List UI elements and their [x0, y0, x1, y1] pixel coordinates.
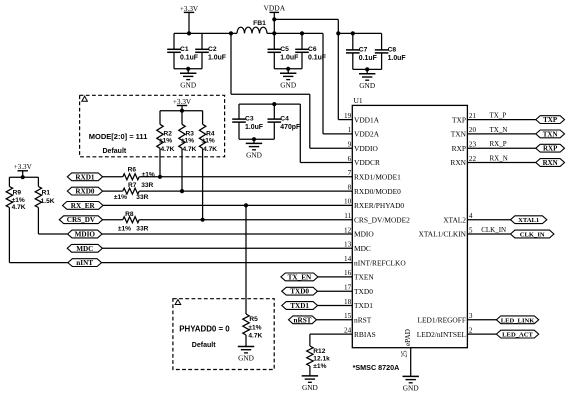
- wire TXD0 to pin 17: [318, 290, 353, 292]
- triangle revision marker on PHYADD0 box: [175, 300, 181, 305]
- svg-text:C3: C3: [245, 116, 254, 123]
- capacitor C2: [201, 33, 203, 49]
- wire nRST to pin 15: [317, 319, 353, 321]
- svg-text:23: 23: [469, 141, 477, 149]
- connector MDC: [67, 244, 102, 252]
- svg-text:TXP: TXP: [543, 116, 558, 124]
- connector nRST: [289, 316, 317, 324]
- svg-text:R6: R6: [128, 167, 137, 174]
- wire VDDIO branch to pin 9: [230, 33, 232, 94]
- wire TXP to connector: [467, 119, 535, 121]
- svg-text:±1%: ±1%: [159, 138, 172, 145]
- svg-text:RXN: RXN: [543, 159, 558, 167]
- svg-text:RXD1/MODE1: RXD1/MODE1: [354, 173, 401, 182]
- svg-text:FB1: FB1: [253, 20, 266, 27]
- svg-text:R9: R9: [13, 190, 22, 197]
- svg-text:13: 13: [344, 241, 352, 249]
- dashed annotation box MODE: [80, 95, 225, 157]
- wire R1 to MDIO line: [37, 208, 39, 235]
- node C3C4 ground junction: [252, 137, 256, 141]
- wire VDDA rail after FB1: [267, 32, 323, 34]
- node R9-R1 rail junction: [21, 175, 25, 179]
- svg-text:R5: R5: [249, 316, 258, 323]
- connector LED_ACT: [496, 330, 538, 338]
- svg-text:VDD2A: VDD2A: [354, 130, 380, 139]
- svg-text:9: 9: [348, 141, 352, 149]
- connector RXD1: [67, 173, 102, 181]
- connector TXP: [536, 116, 565, 124]
- ferrite bead FB1: [237, 27, 267, 33]
- wire VDDA stem down: [273, 12, 275, 33]
- svg-text:C4: C4: [280, 116, 289, 123]
- wire RXP to connector: [467, 147, 535, 149]
- connector RXN: [536, 159, 565, 167]
- node rail C7 junction: [351, 31, 355, 35]
- svg-text:33R: 33R: [141, 182, 153, 189]
- wire C3-C4 bottom rail: [239, 138, 274, 140]
- resistor R1: [37, 177, 39, 186]
- node +3.3V rail junction: [187, 31, 191, 35]
- svg-text:TXEN: TXEN: [354, 273, 374, 282]
- svg-text:4.7K: 4.7K: [203, 146, 217, 153]
- svg-text:Default: Default: [103, 148, 127, 155]
- svg-text:4.7K: 4.7K: [183, 146, 197, 153]
- resistor R3: [181, 111, 183, 125]
- capacitor C8: [381, 33, 383, 50]
- resistor R12: [307, 346, 313, 366]
- svg-text:*SMSC 8720A: *SMSC 8720A: [353, 363, 400, 372]
- svg-text:TX_N: TX_N: [490, 126, 508, 134]
- resistor R5: [243, 314, 249, 335]
- ground GND under C1 C2: [187, 69, 189, 73]
- capacitor C7: [352, 33, 354, 50]
- svg-text:25: 25: [400, 350, 408, 358]
- svg-text:C2: C2: [208, 46, 217, 53]
- svg-text:22: 22: [469, 155, 477, 163]
- svg-text:LED2/nINTSEL: LED2/nINTSEL: [417, 330, 467, 339]
- wire XTAL1/CLKIN to connector: [467, 233, 510, 235]
- wire ePAD to ground: [410, 348, 412, 377]
- connector LED_LINK: [496, 316, 538, 324]
- node C4 top junction: [272, 102, 276, 106]
- svg-text:TXP: TXP: [452, 115, 466, 124]
- svg-text:±1%: ±1%: [248, 324, 261, 331]
- wire RX_ER to pin 10: [103, 204, 352, 206]
- svg-text:RX_N: RX_N: [490, 155, 508, 163]
- svg-text:33R: 33R: [136, 194, 148, 201]
- resistor R4: [202, 111, 204, 125]
- wire RXD0 to pin 8: [139, 190, 352, 192]
- connector RXP: [536, 144, 565, 152]
- svg-text:4: 4: [469, 212, 473, 220]
- wire MDIO to pin 12: [102, 233, 352, 235]
- svg-text:XTAL2: XTAL2: [443, 215, 466, 224]
- svg-text:ePAD: ePAD: [404, 329, 412, 346]
- svg-text:VDD1A: VDD1A: [354, 115, 380, 124]
- svg-text:VDDCR: VDDCR: [354, 158, 380, 167]
- svg-text:2: 2: [469, 326, 473, 334]
- svg-text:R1: R1: [42, 190, 51, 197]
- svg-text:1.0uF: 1.0uF: [280, 54, 298, 61]
- node C1C2 ground junction: [186, 67, 190, 71]
- svg-text:GND: GND: [302, 383, 318, 392]
- svg-text:R8: R8: [125, 211, 134, 218]
- svg-text:RXP: RXP: [543, 145, 558, 153]
- svg-text:CLK_IN: CLK_IN: [520, 232, 545, 239]
- svg-text:MODE[2:0] = 111: MODE[2:0] = 111: [89, 132, 148, 141]
- svg-text:±1%: ±1%: [118, 225, 131, 232]
- svg-text:1.0uF: 1.0uF: [245, 124, 263, 131]
- svg-text:0.1uF: 0.1uF: [359, 55, 377, 62]
- wire LED1 to connector: [467, 319, 496, 321]
- ground GND under ePAD: [403, 375, 419, 377]
- svg-text:4.7K: 4.7K: [248, 333, 262, 340]
- connector MDIO: [68, 230, 102, 238]
- wire TXD1 to pin 18: [318, 305, 353, 307]
- ground GND under C7 C8: [366, 69, 368, 73]
- capacitor C5: [273, 33, 275, 49]
- svg-text:RXER/PHYAD0: RXER/PHYAD0: [354, 201, 404, 210]
- svg-text:1.0uF: 1.0uF: [388, 55, 406, 62]
- svg-text:TXD1: TXD1: [290, 302, 309, 310]
- svg-text:GND: GND: [403, 384, 419, 393]
- svg-text:CRS_DV: CRS_DV: [67, 216, 96, 224]
- wire XTAL2 to connector: [467, 219, 510, 221]
- wire R2-R4 top rail: [160, 110, 203, 112]
- svg-text:R7: R7: [128, 182, 137, 189]
- resistor R2: [159, 111, 161, 125]
- wire VDDA upper rail to VDD1A branch: [274, 18, 338, 20]
- svg-text:±1%: ±1%: [12, 197, 25, 204]
- connector CRS_DV: [59, 216, 102, 224]
- svg-text:LED1/REGOFF: LED1/REGOFF: [418, 316, 466, 325]
- svg-text:1.0uF: 1.0uF: [208, 54, 226, 61]
- svg-text:C8: C8: [388, 47, 397, 54]
- svg-text:TX_P: TX_P: [490, 112, 507, 120]
- capacitor C4: [273, 104, 275, 119]
- node C7C8 ground junction: [365, 67, 369, 71]
- svg-text:C6: C6: [308, 46, 317, 53]
- svg-text:0.1uF: 0.1uF: [180, 54, 198, 61]
- svg-text:16: 16: [344, 269, 352, 277]
- svg-text:12.1k: 12.1k: [313, 356, 330, 363]
- resistor R8: [123, 217, 139, 223]
- svg-text:3: 3: [469, 312, 473, 320]
- svg-text:RXD0: RXD0: [75, 188, 95, 196]
- wire C5-C6 bottom rail: [274, 68, 302, 70]
- svg-text:TXN: TXN: [451, 130, 467, 139]
- svg-text:+3.3V: +3.3V: [14, 163, 33, 171]
- svg-text:GND: GND: [359, 81, 375, 90]
- svg-text:±1%: ±1%: [114, 194, 127, 201]
- svg-text:20: 20: [469, 126, 477, 134]
- wire CRS_DV to R8: [103, 219, 123, 221]
- svg-text:+3.3V: +3.3V: [180, 5, 199, 13]
- svg-text:R2: R2: [164, 130, 173, 137]
- wire LED2 to connector: [467, 333, 496, 335]
- resistor R7: [123, 188, 139, 194]
- wire RXD1 to pin 7: [139, 176, 352, 178]
- svg-text:RXN: RXN: [450, 158, 466, 167]
- wire VDDA right rail segment: [338, 32, 381, 34]
- svg-text:15: 15: [344, 312, 352, 320]
- wire RBIAS to R12: [310, 333, 352, 335]
- capacitor C1: [173, 33, 175, 49]
- connector CLK_IN: [511, 230, 554, 238]
- connector RXD0: [67, 187, 102, 195]
- node C5C6 ground junction: [286, 67, 290, 71]
- node rail crossing at x=338: [336, 31, 340, 35]
- wire nINT to pin 14: [102, 262, 353, 264]
- svg-text:TX_EN: TX_EN: [288, 273, 312, 281]
- connector XTAL1: [511, 216, 547, 224]
- svg-text:PHYADD0 = 0: PHYADD0 = 0: [179, 325, 230, 334]
- svg-text:7: 7: [348, 169, 352, 177]
- svg-text:RX_ER: RX_ER: [71, 202, 96, 210]
- ground GND under C3 C4: [253, 139, 255, 143]
- svg-text:11: 11: [344, 212, 351, 220]
- svg-text:MDIO: MDIO: [75, 231, 96, 239]
- svg-text:±1%: ±1%: [181, 138, 194, 145]
- triangle revision marker on MODE box: [82, 96, 88, 101]
- wire TX_EN to pin 16: [318, 276, 352, 278]
- node rail C6 junction: [300, 31, 304, 35]
- wire VDD2A branch down to pin 1: [322, 33, 324, 133]
- wire +3.3V rail left segment: [174, 32, 237, 34]
- svg-text:TXD0: TXD0: [354, 287, 373, 296]
- svg-text:LED_ACT: LED_ACT: [502, 332, 533, 339]
- svg-text:RXD1: RXD1: [75, 173, 95, 181]
- svg-text:XTAL1: XTAL1: [518, 217, 539, 224]
- svg-text:LED_LINK: LED_LINK: [501, 317, 536, 324]
- connector TX_EN: [281, 273, 318, 281]
- resistor R9: [8, 177, 10, 186]
- svg-text:TXD1: TXD1: [354, 301, 373, 310]
- svg-text:GND: GND: [180, 80, 196, 89]
- svg-text:nRST: nRST: [354, 316, 372, 325]
- svg-text:1: 1: [348, 126, 352, 134]
- wire C7-C8 bottom rail: [353, 68, 382, 70]
- connector TXD0: [282, 287, 318, 295]
- svg-text:RXP: RXP: [452, 144, 466, 153]
- wire R9-R1 top rail: [9, 176, 38, 178]
- node R3 top junction: [180, 109, 184, 113]
- connector TXN: [536, 130, 565, 138]
- svg-text:RXD0/MODE0: RXD0/MODE0: [354, 187, 401, 196]
- svg-text:C5: C5: [280, 46, 289, 53]
- IC U1 SMSC 8720A body: [352, 105, 467, 347]
- wire vertical to pin 19 VDD1A: [337, 19, 339, 119]
- wire RXD0 to R7: [103, 190, 123, 192]
- svg-text:CLK_IN: CLK_IN: [481, 226, 506, 234]
- resistor R6: [123, 174, 139, 180]
- svg-text:17: 17: [344, 284, 352, 292]
- svg-text:VDDA: VDDA: [263, 4, 285, 13]
- svg-text:R12: R12: [313, 348, 325, 355]
- svg-text:TXD0: TXD0: [290, 288, 309, 296]
- svg-text:GND: GND: [246, 151, 262, 160]
- svg-text:XTAL1/CLKIN: XTAL1/CLKIN: [419, 230, 467, 239]
- dashed annotation box PHYADD0: [173, 299, 274, 370]
- svg-text:6: 6: [348, 155, 352, 163]
- wire C1-C2 bottom rail: [174, 68, 202, 70]
- svg-text:1.5K: 1.5K: [41, 198, 55, 205]
- node R2-RXD1 junction: [158, 175, 162, 179]
- node R3-RXD0 junction: [180, 189, 184, 193]
- ground GND under R5: [238, 346, 254, 348]
- svg-text:5: 5: [469, 226, 473, 234]
- svg-text:U1: U1: [354, 96, 363, 105]
- connector nINT: [68, 259, 102, 267]
- node rail C5 junction: [272, 31, 276, 35]
- svg-text:12: 12: [344, 226, 352, 234]
- svg-text:MDC: MDC: [76, 245, 93, 253]
- svg-text:8: 8: [348, 183, 352, 191]
- svg-text:+3.3V: +3.3V: [173, 98, 192, 106]
- connector TXD1: [282, 302, 318, 310]
- node R5-RXER junction: [244, 203, 248, 207]
- svg-text:470pF: 470pF: [280, 124, 300, 131]
- wire R5 branch down from RX_ER: [245, 205, 247, 314]
- node VDDA upper junction: [272, 17, 276, 21]
- svg-text:14: 14: [344, 255, 352, 263]
- svg-text:nINT: nINT: [76, 259, 93, 267]
- svg-text:±1%: ±1%: [202, 138, 215, 145]
- ground GND under C5 C6: [287, 69, 289, 73]
- svg-text:RBIAS: RBIAS: [354, 330, 376, 339]
- svg-text:21: 21: [469, 112, 477, 120]
- svg-text:18: 18: [344, 298, 352, 306]
- svg-text:±1%: ±1%: [142, 172, 155, 179]
- wire RXN to connector: [467, 162, 535, 164]
- svg-text:nRST: nRST: [294, 316, 312, 324]
- svg-text:C1: C1: [180, 46, 189, 53]
- svg-text:C7: C7: [359, 47, 368, 54]
- svg-text:±1%: ±1%: [313, 363, 326, 370]
- wire C3-C4 top rail to pin 6 VDDCR: [239, 103, 300, 105]
- svg-text:R4: R4: [206, 130, 215, 137]
- ground GND under R12: [302, 375, 318, 377]
- svg-text:4.7K: 4.7K: [161, 146, 175, 153]
- wire MDC to pin 13: [102, 247, 352, 249]
- svg-text:10: 10: [344, 198, 352, 206]
- svg-text:nINT/REFCLKO: nINT/REFCLKO: [354, 258, 406, 267]
- svg-text:TXN: TXN: [543, 130, 558, 138]
- svg-text:24: 24: [344, 326, 352, 334]
- svg-text:4.7K: 4.7K: [12, 204, 26, 211]
- node VDDIO branch junction: [229, 31, 233, 35]
- svg-text:MDC: MDC: [354, 244, 371, 253]
- svg-text:CRS_DV/MODE2: CRS_DV/MODE2: [354, 215, 410, 224]
- svg-text:VDDIO: VDDIO: [354, 144, 378, 153]
- svg-text:33R: 33R: [136, 225, 148, 232]
- svg-text:Default: Default: [192, 342, 216, 349]
- wire RXD1 to R6: [103, 176, 123, 178]
- svg-text:GND: GND: [280, 80, 296, 89]
- capacitor C6: [301, 33, 303, 49]
- svg-text:RX_P: RX_P: [490, 140, 507, 148]
- svg-text:0.1uF: 0.1uF: [308, 54, 326, 61]
- svg-text:R3: R3: [186, 130, 195, 137]
- capacitor C3: [238, 104, 240, 119]
- svg-text:MDIO: MDIO: [354, 230, 374, 239]
- wire CRS_DV to pin 11: [139, 219, 352, 221]
- svg-text:19: 19: [344, 112, 352, 120]
- wire R9 to nINT line: [8, 208, 10, 263]
- node R4-CRS_DV junction: [201, 218, 205, 222]
- wire TXN to connector: [467, 133, 535, 135]
- connector RX_ER: [63, 202, 104, 210]
- svg-text:GND: GND: [238, 354, 254, 363]
